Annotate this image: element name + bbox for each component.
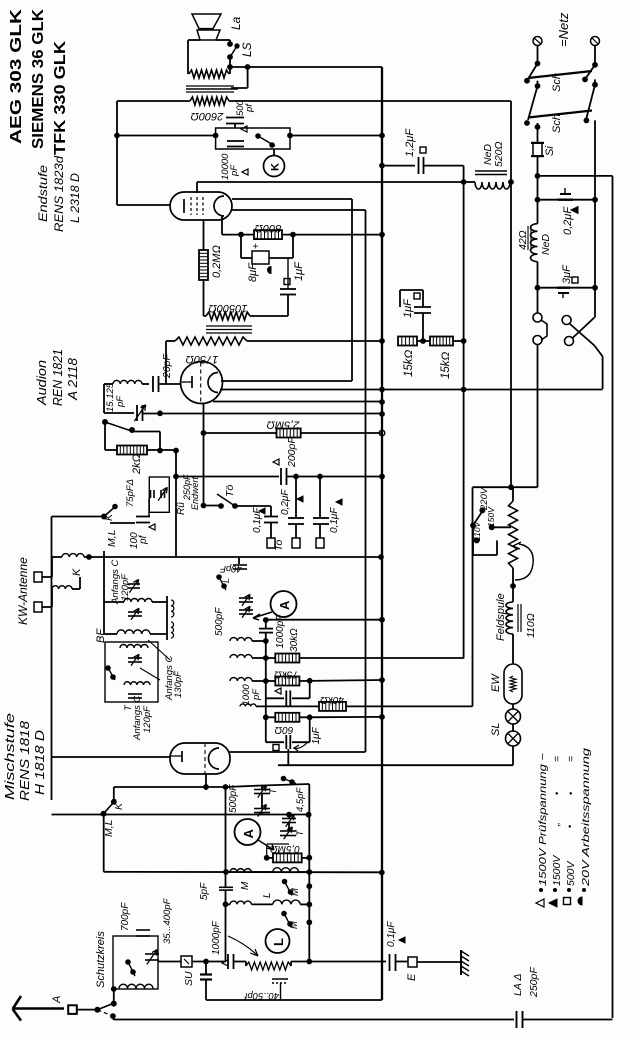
svg-text:pf: pf (244, 103, 255, 113)
capacitor 100pF (110, 522, 135, 524)
svg-text:120pF: 120pF (142, 705, 153, 733)
wire SL return line (287, 749, 289, 765)
capacitor 1000pF mixer (259, 628, 273, 630)
svg-text:L: L (221, 578, 231, 583)
transformer primary winding (189, 70, 229, 78)
audion anode arc (208, 373, 218, 393)
capacitor 10000pF (227, 140, 244, 142)
wire switch down (104, 422, 106, 450)
capacitor 0.1uF To left (270, 506, 272, 516)
svg-text:20pF: 20pF (161, 353, 173, 379)
switch wave band audion (103, 420, 108, 425)
filter coil row1 (104, 601, 124, 603)
svg-text:42Ω: 42Ω (517, 230, 529, 250)
tone network box (216, 128, 290, 149)
wire blade corner (133, 431, 160, 433)
wire audion cathode down (203, 403, 205, 506)
wire 15k line (461, 339, 466, 344)
marker delta 1000pF (275, 688, 281, 694)
selector wires (472, 525, 474, 555)
svg-text:Mischstufe: Mischstufe (3, 713, 17, 800)
svg-text:20V Arbeitsspannung: 20V Arbeitsspannung (580, 748, 592, 888)
svg-text:1500V: 1500V (551, 855, 563, 886)
bandfilter left rail (103, 551, 105, 634)
svg-text:REN 1821: REN 1821 (51, 349, 65, 406)
capacitor 0.2uF mains (535, 197, 540, 202)
svg-text:BF: BF (95, 628, 107, 643)
svg-text:15kΩ: 15kΩ (403, 349, 415, 377)
outer border right (612, 176, 614, 1018)
resistor 0.5M (273, 853, 302, 862)
svg-text:1750Ω: 1750Ω (186, 353, 219, 365)
svg-text:Sch: Sch (551, 114, 563, 133)
schutzkreis switch (126, 960, 131, 965)
switch Toe (204, 505, 222, 507)
terminal SU (181, 956, 192, 967)
capacitor 1000pF antenna (227, 954, 229, 969)
mixer coil 706 (240, 704, 256, 707)
svg-text:800Ω: 800Ω (255, 222, 282, 234)
wire x366 vertical (365, 210, 367, 752)
svg-text:=Netz: =Netz (556, 12, 571, 47)
svg-text:250pF: 250pF (528, 967, 540, 998)
wire left vertical (51, 517, 53, 801)
svg-text:„: „ (550, 823, 562, 828)
svg-text:1500V Prüfspannung ~: 1500V Prüfspannung ~ (537, 753, 549, 886)
svg-text:E: E (406, 973, 418, 981)
capacitor SU earth (204, 959, 209, 964)
legend row delta 1500V Pruefspannung (536, 899, 544, 907)
capacitor 500pF (226, 117, 244, 119)
winding 1750 ohm (175, 337, 247, 345)
wire tube pin row 199 (232, 198, 352, 200)
capacitor 3uF (535, 285, 540, 290)
wire 2600 left down (117, 100, 190, 102)
oscillator box left rail (225, 787, 227, 887)
svg-text:150V: 150V (486, 506, 496, 527)
antenna dashed throw (97, 1010, 113, 1016)
wire mains right pole down (594, 120, 596, 317)
svg-text:8μF: 8μF (247, 262, 259, 282)
svg-text:0,5MΩ: 0,5MΩ (270, 843, 300, 854)
svg-text:LS: LS (240, 42, 254, 57)
mains terminal left (533, 37, 542, 46)
jack right crossed (562, 316, 571, 325)
svg-text:K: K (270, 163, 282, 171)
marker delta 200pF (273, 459, 279, 465)
terminal E (396, 961, 409, 963)
wire osc row 814 (104, 814, 309, 816)
legend row triangle 1500V (549, 899, 557, 907)
wire 1750 left (166, 340, 175, 342)
svg-text:1μF: 1μF (293, 261, 305, 281)
arrow to trimmer b (140, 668, 160, 680)
svg-text:La: La (229, 16, 243, 30)
svg-text:Tö: Tö (224, 485, 236, 497)
svg-text:1μF: 1μF (311, 726, 322, 744)
svg-text:SL: SL (490, 723, 502, 736)
wire x176 vertical (175, 450, 177, 557)
tube RENS1818 envelope (170, 743, 230, 774)
switch M right osc (282, 879, 287, 884)
svg-text:A: A (277, 600, 292, 610)
svg-text:A 2118: A 2118 (66, 358, 80, 401)
svg-text:pF: pF (229, 164, 240, 177)
svg-text:•: • (566, 792, 576, 795)
arrow to trimmer a (148, 640, 170, 660)
capacitor 1.2uF (380, 163, 385, 168)
mixer coil 658 (230, 655, 252, 658)
wire misch heater to x366 (229, 751, 366, 753)
svg-text:=: = (565, 756, 577, 762)
trimmer 15.125pF (104, 412, 134, 414)
marker square 3uF (572, 277, 578, 283)
wire 1750 to bus (247, 340, 382, 342)
svg-text:5pF: 5pF (199, 882, 210, 900)
resistor 75k (266, 680, 276, 682)
antenna arrow (14, 1007, 64, 1010)
svg-text:M: M (290, 888, 301, 896)
transformer core (186, 85, 234, 87)
antenna wire (77, 1009, 98, 1011)
lamp EW (504, 664, 522, 704)
capacitor 8uF electrolytic (240, 235, 242, 258)
wire padder right (291, 961, 386, 963)
meter A upper (271, 591, 297, 617)
marker 500pF delta (241, 126, 247, 132)
lower capacitor (128, 693, 142, 695)
svg-text:1,2μF: 1,2μF (404, 128, 416, 157)
svg-text:pF: pF (251, 688, 262, 701)
capacitor 0.1uF To right (319, 477, 321, 517)
resistor 2k ohm (105, 449, 117, 451)
loudspeaker La (192, 14, 221, 29)
antenna terminal 2 (34, 602, 42, 612)
capacitor 0.2uF To (295, 477, 297, 517)
switch L mixer (217, 575, 222, 580)
wire misch grid down (205, 774, 207, 790)
switch Sch upper (537, 46, 539, 64)
svg-text:1000pF: 1000pF (211, 920, 222, 955)
antenna terminal 1 (34, 572, 42, 582)
coil L2 osc (273, 900, 300, 904)
svg-text:Endwert: Endwert (190, 476, 200, 510)
wire tone box left (213, 133, 218, 138)
wire 658 to right (299, 657, 464, 659)
svg-text:RENS 1818: RENS 1818 (18, 721, 32, 801)
svg-text:500V: 500V (565, 860, 577, 886)
svg-text:60Ω: 60Ω (274, 724, 293, 735)
tube RENS1823d envelope (170, 192, 232, 220)
marker triangle 0.2uF (571, 207, 578, 214)
capacitor 500pF osc trimmer1 (254, 789, 270, 791)
svg-text:0,1μF: 0,1μF (386, 921, 397, 947)
marker 1uF square (284, 279, 290, 285)
wire left vert bottom corner (52, 814, 104, 816)
marker square 1.2uF (420, 147, 426, 153)
bottom border wire (114, 1019, 514, 1021)
svg-text:130pF: 130pF (173, 670, 184, 698)
wire misch input (52, 756, 171, 758)
legend row square 500V (564, 898, 571, 905)
svg-text:M,L: M,L (106, 529, 118, 547)
trimmer T mid osc (280, 830, 296, 832)
capacitor 1000pF delta bracket (266, 697, 284, 699)
bandfilter box lower (105, 642, 158, 702)
svg-text:T: T (295, 829, 305, 836)
voltage selector 110V (474, 538, 479, 543)
resistor 0.2M ohm (203, 220, 205, 250)
osc tube L circle (266, 929, 290, 953)
terminal To right (316, 538, 324, 548)
coil M2 osc (230, 901, 251, 904)
wire jack to corner (594, 346, 602, 357)
wire SL connect (512, 724, 514, 731)
svg-text:Audion: Audion (35, 360, 49, 406)
wire line B 476 (174, 474, 179, 479)
wire anode row 381 (221, 380, 352, 382)
svg-text:pF: pF (115, 395, 126, 408)
wire x472 vertical (472, 487, 474, 706)
capacitor 200pF (280, 468, 282, 485)
svg-text:A: A (241, 829, 256, 839)
secondary coils right (171, 600, 174, 617)
svg-text:A: A (51, 996, 63, 1004)
lamp SL 2 (506, 731, 521, 746)
svg-text:2600Ω: 2600Ω (191, 110, 225, 122)
coil M osc (230, 869, 251, 872)
svg-text:T: T (268, 787, 278, 794)
lower filter coil2 (124, 682, 150, 685)
coil L osc (273, 868, 299, 872)
svg-text:110Ω: 110Ω (525, 613, 537, 638)
meter A arrow (253, 612, 272, 620)
svg-text:KW-Antenne: KW-Antenne (16, 557, 30, 625)
trimmer 4.5pF (282, 818, 296, 820)
svg-text:SIEMENS 36 GLK: SIEMENS 36 GLK (30, 8, 47, 149)
legend row halfmoon 20V Arbeitsspannung (578, 897, 582, 905)
lamp SL 1 (506, 709, 521, 724)
padder cap dashed (272, 978, 288, 980)
svg-text:L: L (262, 892, 273, 898)
terminal To left (267, 538, 275, 548)
schutzkreis box (113, 936, 158, 989)
arrow A osc (258, 840, 274, 850)
svg-text:TFK 330 GLK: TFK 330 GLK (52, 40, 69, 155)
marker 8uF (268, 267, 272, 274)
speaker frame box (187, 40, 189, 74)
wire return line y389 (220, 389, 603, 391)
resistor 800 ohm (254, 230, 282, 239)
wire anode down (221, 216, 223, 235)
svg-text:L: L (271, 938, 286, 946)
svg-text:•: • (565, 825, 575, 828)
wire secondary top (231, 87, 248, 89)
svg-text:2kΩ: 2kΩ (131, 454, 143, 475)
capacitor 1uF decoupling (422, 313, 424, 341)
resistor 30k (266, 657, 276, 659)
curved arrow 1uF (294, 742, 308, 751)
wire grid to osc box (113, 787, 115, 802)
svg-text:•: • (552, 792, 562, 795)
svg-text:700pF: 700pF (120, 902, 131, 931)
svg-text:500pF: 500pF (214, 607, 225, 636)
svg-text:NeD: NeD (540, 234, 552, 255)
trimmer 35-400pF (145, 953, 159, 955)
svg-text:0,2μF: 0,2μF (280, 489, 291, 515)
marker 10000pF delta (242, 169, 248, 175)
marker delta 100pF (149, 524, 155, 530)
svg-text:520Ω: 520Ω (493, 141, 505, 167)
wire right supply vertical (463, 166, 465, 658)
svg-text:AEG 303 GLK: AEG 303 GLK (8, 8, 25, 144)
oscillator box top (226, 786, 263, 788)
tube REN1821 envelope (181, 362, 223, 404)
dropper resistor zigzag (509, 501, 518, 568)
svg-text:0,2MΩ: 0,2MΩ (211, 245, 223, 278)
marker square 1uF mixer (273, 745, 279, 751)
capacitor 5pF in rail (219, 886, 233, 888)
svg-text:1000pF: 1000pF (275, 614, 286, 649)
wire E to ground (417, 961, 460, 963)
resistor 15k ohm left (398, 337, 417, 346)
capacitor LA 250pF (516, 1011, 518, 1028)
lower trimmer (128, 657, 142, 659)
svg-text:EW: EW (490, 673, 502, 692)
wire to bottom border (112, 1016, 115, 1020)
marker delta antenna cap (222, 960, 228, 966)
wire below jack (537, 345, 539, 488)
winding 10500 ohm (206, 312, 250, 320)
voltage selector 150V (489, 525, 494, 530)
capacitor 700pF (136, 929, 150, 931)
trimmer upper (128, 583, 140, 585)
svg-text:2,5MΩ: 2,5MΩ (267, 419, 301, 431)
svg-text:Sch: Sch (551, 73, 563, 92)
fuse Si (535, 125, 540, 130)
svg-text:40pF: 40pF (219, 563, 242, 574)
svg-text:Endstufe: Endstufe (36, 165, 50, 222)
svg-text:1μF: 1μF (402, 298, 414, 318)
choke core (206, 325, 252, 327)
switch osc top (281, 776, 286, 781)
svg-text:0,2μF: 0,2μF (562, 206, 574, 235)
marker square 1uF decoupling (414, 293, 420, 299)
svg-text:To: To (273, 540, 285, 551)
wire 2600 line to NeD (229, 100, 511, 102)
misch anode arc (209, 748, 220, 769)
choke NeD 520 ohm (475, 182, 510, 189)
capacitor 20pF (152, 376, 154, 392)
wire KW line (89, 556, 382, 558)
tube anode arc (214, 196, 224, 216)
wire to outer border (535, 174, 540, 179)
filter coil row2 (104, 633, 117, 635)
switch Sch lower (535, 84, 540, 89)
headphone symbol K (264, 156, 285, 177)
svg-text:pf: pf (138, 534, 149, 545)
selector blade (473, 510, 484, 526)
svg-text:Rü: Rü (176, 502, 187, 515)
svg-text:30kΩ: 30kΩ (289, 628, 300, 652)
main bus vertical (381, 67, 383, 1000)
svg-text:35...400pF: 35...400pF (162, 897, 173, 944)
wire antenna up to schutzkreis (113, 989, 115, 1004)
capacitor 0.1uF output (389, 954, 391, 971)
trimmer pair mixer (239, 597, 253, 599)
svg-text:4,5pF: 4,5pF (295, 787, 306, 812)
svg-text:L 2318 D: L 2318 D (68, 173, 82, 223)
resistor 40k (319, 702, 346, 711)
capacitor 1uF mixer bracket (265, 736, 267, 742)
misch cathode bar (181, 751, 183, 762)
switch K audion band (52, 516, 105, 518)
capacitor 40pF (238, 557, 240, 564)
mains terminal right (591, 37, 600, 46)
resistor 60 ohm (263, 715, 268, 720)
mixer rail vertical (265, 620, 267, 629)
padder 40-50pF (246, 962, 291, 970)
svg-text:K: K (113, 802, 125, 810)
wire row 401 (213, 401, 382, 403)
voltage selector 220V (480, 508, 485, 513)
coil Feldspule (506, 602, 513, 634)
wire line A 433 (204, 432, 277, 434)
svg-text:0,1μF: 0,1μF (329, 507, 340, 533)
svg-text:=: = (551, 756, 563, 762)
svg-text:15kΩ: 15kΩ (440, 351, 452, 379)
svg-text:75pFΔ: 75pFΔ (125, 479, 136, 507)
tube cathode bar (183, 199, 185, 213)
ground symbol (460, 950, 462, 975)
capacitor 500pF osc trimmer2 (254, 808, 270, 810)
svg-text:K: K (71, 568, 83, 576)
capacitor 1uF (280, 288, 296, 290)
switch MLK mixer (101, 811, 106, 816)
oscillator right rail (308, 784, 310, 962)
wire tube pin row 210 (232, 209, 366, 211)
svg-text:H 1818 D: H 1818 D (33, 730, 47, 795)
wire tone box right to bus (288, 133, 293, 138)
svg-text:K: K (103, 513, 115, 521)
svg-text:M: M (289, 921, 300, 929)
svg-text:Feldspule: Feldspule (495, 593, 507, 641)
svg-text:120pF: 120pF (120, 573, 131, 601)
dropper tap arrow (513, 542, 521, 549)
wire selector feed (473, 486, 512, 488)
wire tube input left (117, 204, 170, 206)
coupling coil K upper (42, 576, 52, 578)
winding 2600 ohm (190, 97, 229, 105)
capacitor row1 (128, 611, 142, 613)
svg-text:10500Ω: 10500Ω (209, 302, 248, 314)
switch in tone box (256, 134, 261, 139)
svg-text:3μF: 3μF (561, 264, 573, 284)
lower switch (106, 666, 111, 671)
svg-text:M: M (240, 881, 251, 890)
svg-text:+ -: + - (251, 237, 262, 249)
svg-text:LA Δ: LA Δ (512, 974, 524, 996)
coupling coil K lower (42, 606, 52, 608)
schutzkreis coil (119, 984, 153, 988)
svg-text:M,L: M,L (103, 819, 115, 837)
svg-text:200pF: 200pF (286, 437, 298, 468)
wire NeD down to selector (510, 182, 512, 487)
jack left (537, 288, 539, 313)
wire osc feed down (103, 815, 105, 872)
resistor 2.5M ohm (277, 429, 301, 438)
mixer coil 681 (230, 678, 252, 681)
